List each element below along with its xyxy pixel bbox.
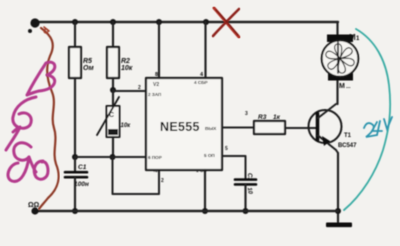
red X cross-out <box>213 8 239 37</box>
svg-text:R2: R2 <box>121 58 130 65</box>
svg-text:8: 8 <box>155 72 158 78</box>
wire: trig U-link pin2 to node <box>113 157 160 194</box>
svg-text:ВС547: ВС547 <box>338 143 357 149</box>
svg-text:2: 2 <box>138 85 141 91</box>
node A: trigger node <box>110 87 116 93</box>
node: C1 bottom <box>72 208 78 214</box>
letter 6 <box>13 97 36 128</box>
resistor R1 <box>69 47 81 78</box>
svg-text:1к: 1к <box>273 114 281 121</box>
capacitor C3 <box>235 178 256 181</box>
letter д <box>8 143 31 182</box>
wire: emitter down to rail <box>336 150 338 153</box>
ground <box>326 223 352 228</box>
wire: trigger node to IC pin 2 <box>113 90 146 92</box>
node: mid rail left <box>72 154 78 160</box>
svg-text:NE555: NE555 <box>160 120 200 134</box>
svg-text:3: 3 <box>245 111 248 117</box>
wire: R1 branch upper lead <box>74 22 76 47</box>
capacitor C1 <box>74 157 76 171</box>
node: junction pin8/top <box>156 19 162 25</box>
node: bottom left terminal <box>31 207 38 214</box>
svg-text:ВЫХ: ВЫХ <box>205 126 217 132</box>
wire: R2 lower lead to trigger node <box>112 78 114 90</box>
wire: R2 branch upper lead <box>112 22 114 47</box>
wire: pin 4 to rail <box>204 22 206 78</box>
letter 1 <box>6 127 20 150</box>
resistor R2 <box>107 47 119 78</box>
node: junction pin4/top <box>203 19 209 25</box>
handwriting: до 16В <box>6 62 55 181</box>
svg-text:Ом: Ом <box>83 65 95 72</box>
svg-text:10к: 10к <box>121 123 132 129</box>
wire: thermistor bottom lead <box>112 137 114 157</box>
svg-text:С1: С1 <box>78 164 87 171</box>
thermistor RK1 <box>107 106 120 137</box>
node: mid rail thermistor <box>110 154 116 160</box>
svg-text:4 СБР: 4 СБР <box>194 80 208 85</box>
wire: pin 1 to ground rail <box>204 170 206 211</box>
resistor R3 1k <box>254 121 285 134</box>
svg-text:100н: 100н <box>74 181 89 188</box>
svg-text:M: M <box>339 83 345 90</box>
svg-text:M: M <box>349 33 356 42</box>
emitter with arrow <box>318 136 336 151</box>
svg-text:R3: R3 <box>258 114 267 121</box>
wire: thermistor top lead <box>112 90 114 106</box>
op-amp U1: NE555 IC body <box>146 78 222 170</box>
svg-text:ΩΩ: ΩΩ <box>28 202 40 209</box>
collector <box>318 104 336 118</box>
svg-text:6 ПОР: 6 ПОР <box>148 155 162 160</box>
24V text <box>364 117 392 137</box>
wire: R1 lower lead down to mid node <box>74 78 76 157</box>
svg-text:10к: 10к <box>121 65 133 72</box>
letter В <box>27 62 55 95</box>
svg-text:5 ОП: 5 ОП <box>204 153 215 158</box>
wire: mid rail to IC pin 6 <box>75 156 146 158</box>
svg-text:5: 5 <box>225 146 228 152</box>
node: + supply terminal <box>30 18 39 27</box>
handwriting: cyan curve 24V <box>344 29 392 210</box>
svg-text:2 ЗАП: 2 ЗАП <box>148 92 161 97</box>
svg-text:C: C <box>109 112 114 119</box>
letter о <box>34 161 48 179</box>
node: junction R2/top <box>110 19 116 25</box>
wire: bottom ground rail <box>35 210 338 212</box>
wire: pin 8 to rail <box>158 22 160 78</box>
motor M1 <box>327 35 353 43</box>
wire: R3 to base <box>285 127 316 129</box>
svg-text:Т1: Т1 <box>344 133 352 139</box>
svg-text:R5: R5 <box>83 58 92 65</box>
transistor Q1 BC547 <box>309 110 342 143</box>
wire: pin 3 output <box>222 127 254 129</box>
wire: top supply rail <box>35 21 338 23</box>
svg-text:2: 2 <box>161 178 164 184</box>
wire: pin 5 to C3 <box>222 156 246 178</box>
node: junction R1/top <box>72 19 78 25</box>
wire: collector up to motor <box>336 22 338 104</box>
svg-text:V2: V2 <box>153 82 159 88</box>
svg-text:▾2: ▾2 <box>152 168 158 173</box>
handwriting: red curve left <box>39 27 59 209</box>
svg-text:...: ... <box>346 84 351 90</box>
svg-text:С3: С3 <box>246 173 252 181</box>
